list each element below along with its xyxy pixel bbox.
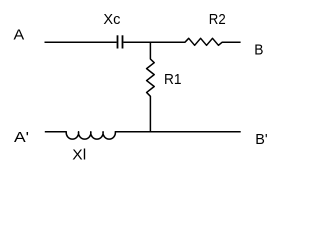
svg-text:B: B <box>254 42 263 59</box>
svg-text:A': A' <box>14 129 29 146</box>
svg-text:R1: R1 <box>164 71 182 88</box>
svg-text:R2: R2 <box>209 11 226 28</box>
svg-text:Xc: Xc <box>103 11 120 28</box>
svg-text:B': B' <box>255 131 268 148</box>
svg-text:Xl: Xl <box>72 147 86 164</box>
svg-text:A: A <box>14 27 25 44</box>
